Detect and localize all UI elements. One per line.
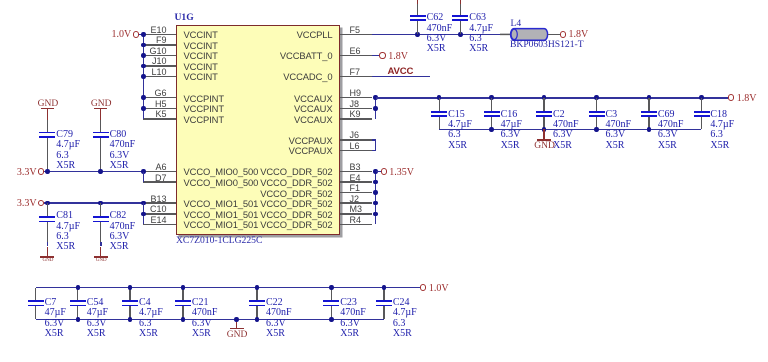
junction C4 bottom xyxy=(128,317,133,322)
junction C54 bottom xyxy=(76,317,81,322)
pin number R4 xyxy=(350,216,362,225)
pin name VCCINT xyxy=(184,72,218,81)
junction C23 bottom xyxy=(329,317,334,322)
junction C63 xyxy=(458,32,463,37)
junction C69 bottom xyxy=(647,127,652,132)
net label 1.35V xyxy=(389,168,414,178)
ground GND (top) xyxy=(91,100,112,110)
junction B13 xyxy=(141,201,146,206)
pin F5 (VCCPLL) right stub xyxy=(340,34,372,36)
junction C22 top xyxy=(255,285,260,290)
pin name VCCPAUX xyxy=(289,146,333,155)
net 1.8V terminal (VCCAUX) xyxy=(728,94,735,101)
pin name VCCO_DDR_502 xyxy=(260,220,332,229)
pin number H5 xyxy=(155,100,167,109)
pin R4 (VCCO_DDR_502) right stub xyxy=(340,224,372,226)
junction C16 top xyxy=(489,95,494,100)
junction C69 top xyxy=(647,95,652,100)
wire cap to gnd xyxy=(47,242,49,247)
pin G10 (VCCINT) left stub xyxy=(143,55,176,57)
net label AVCC xyxy=(388,67,414,77)
wire F5 to L4 xyxy=(372,34,510,36)
net 1.0V terminal (bottom) xyxy=(420,284,426,290)
ground GND xyxy=(40,256,54,258)
ground GND (VCCAUX rail) xyxy=(537,139,551,141)
junction row 6 xyxy=(141,95,146,100)
pin number J8 xyxy=(350,100,360,109)
junction row 1 xyxy=(141,43,146,48)
pin name VCCO_MIO1_501 xyxy=(184,220,259,229)
capacitor C4 xyxy=(129,288,130,301)
capacitor C23 xyxy=(331,288,332,301)
pin number B13 xyxy=(150,195,166,204)
net 1.35V terminal xyxy=(381,168,387,174)
ground GND (bottom rail) xyxy=(230,328,244,330)
capacitor C16 xyxy=(491,98,492,111)
junction ground xyxy=(234,317,239,322)
pin name VCCO_DDR_502 xyxy=(260,178,332,187)
wire 3.3V to B13 xyxy=(44,202,144,204)
wire B3 to 1.35V xyxy=(376,171,381,173)
pin J2 (VCCO_DDR_502) right stub xyxy=(340,202,372,204)
junction C24 top xyxy=(382,285,387,290)
capacitor C82 xyxy=(100,203,101,216)
wire L4 to 1.8V xyxy=(548,34,560,36)
pin number J2 xyxy=(350,195,360,204)
pin E14 (VCCO_MIO1_501) left stub xyxy=(143,224,176,226)
pin D7 (VCCO_MIO0_500) left stub xyxy=(143,181,176,183)
pin J8 (VCCAUX) right stub xyxy=(340,108,372,110)
capacitor C69 xyxy=(648,98,649,111)
ground stub (bottom rail) xyxy=(236,320,237,328)
pin name VCCINT xyxy=(184,51,218,60)
pin F7 (VCCADC_0) right stub xyxy=(340,76,372,78)
junction DDR row 14 xyxy=(373,180,378,185)
junction C16 bottom xyxy=(489,127,494,132)
pin name VCCO_MIO0_500 xyxy=(184,167,259,176)
junction C23 top xyxy=(329,285,334,290)
junction row 0 xyxy=(141,32,146,37)
wire B13 to E14 xyxy=(143,203,145,224)
pin K5 (VCCPINT) left stub xyxy=(143,118,176,120)
pin name VCCAUX xyxy=(294,94,332,103)
junction C3 bottom xyxy=(594,127,599,132)
pin number M3 xyxy=(350,205,363,214)
pin number D7 xyxy=(155,174,167,183)
junction C62 xyxy=(415,32,420,37)
pin number F5 xyxy=(350,26,361,35)
junction row 7 xyxy=(141,106,146,111)
op-amp-style IC body U1G xyxy=(176,25,340,235)
pin number J6 xyxy=(350,131,360,140)
pin number F7 xyxy=(350,68,361,77)
net 1.0V terminal xyxy=(133,31,140,38)
junction C4 top xyxy=(128,285,133,290)
junction H9 xyxy=(373,95,378,100)
ground stub xyxy=(47,247,48,256)
junction C18 top xyxy=(699,95,704,100)
junction DDR row 16 xyxy=(373,201,378,206)
pin number E6 xyxy=(350,47,361,56)
wire VCCAUX rail to 1.8V xyxy=(376,97,728,99)
pin number H9 xyxy=(350,89,362,98)
pin name VCCAUX xyxy=(294,115,332,124)
pin name VCCBATT_0 xyxy=(280,51,333,60)
junction A6 xyxy=(141,169,146,174)
pin name VCCINT xyxy=(184,30,218,39)
pin L10 (VCCINT) left stub xyxy=(143,76,176,78)
wire cap to gnd xyxy=(100,242,102,247)
capacitor C18 xyxy=(701,98,702,111)
ground stub (VCCAUX rail) xyxy=(543,129,544,139)
pin number F1 xyxy=(350,184,361,193)
pin number F9 xyxy=(156,36,167,45)
junction C21 top xyxy=(181,285,186,290)
pin A6 (VCCO_MIO0_500) left stub xyxy=(143,171,176,173)
wire bottom rail top (1.0V) xyxy=(36,287,420,289)
pin number C10 xyxy=(150,205,167,214)
pin name VCCO_MIO0_500 xyxy=(184,178,259,187)
capacitor C15 xyxy=(439,98,440,111)
junction row 2 xyxy=(141,53,146,58)
net label 3.3V (upper) xyxy=(17,168,37,178)
capacitor C2 xyxy=(543,98,544,111)
pin E4 (VCCO_DDR_502) right stub xyxy=(340,181,372,183)
pin name VCCO_DDR_502 xyxy=(260,210,332,219)
pin name VCCADC_0 xyxy=(283,72,332,81)
pin B3 (VCCO_DDR_502) right stub xyxy=(340,171,372,173)
net label 1.0V (bottom) xyxy=(429,284,449,294)
junction C15 top xyxy=(437,95,442,100)
pin name VCCO_MIO1_501 xyxy=(184,210,259,219)
net 1.8V terminal (after L4) xyxy=(560,31,567,38)
pin J6 (VCCPAUX) right stub xyxy=(340,139,372,141)
pin K9 (VCCAUX) right stub xyxy=(340,118,372,120)
part number XC7Z010-1CLG225C xyxy=(176,236,262,246)
wire VCCAUX bus xyxy=(375,98,377,119)
inductor L4 part number xyxy=(510,40,584,50)
pin number K9 xyxy=(350,110,361,119)
wire terminal to bus xyxy=(139,34,144,36)
ground stub xyxy=(100,247,101,256)
junction DDR row 17 xyxy=(373,212,378,217)
inductor L4 ferrite bead body xyxy=(500,27,550,43)
ground GND xyxy=(94,256,108,258)
junction row 4 xyxy=(141,74,146,79)
pin E10 (VCCINT) left stub xyxy=(143,34,176,36)
pin number G10 xyxy=(149,47,166,56)
capacitor C79 xyxy=(47,120,48,132)
junction C22 bottom xyxy=(255,317,260,322)
pin name VCCPINT xyxy=(184,115,224,124)
pin H5 (VCCPINT) left stub xyxy=(143,108,176,110)
capacitor C21 xyxy=(182,288,183,301)
junction C54 top xyxy=(76,285,81,290)
pin number G6 xyxy=(154,89,166,98)
junction C81 xyxy=(45,201,50,206)
pin name VCCPAUX xyxy=(289,136,333,145)
wire VCCO_DDR bus xyxy=(375,172,377,225)
wire bottom rail bottom xyxy=(36,319,384,321)
pin name VCCINT xyxy=(184,62,218,71)
capacitor C62 xyxy=(417,4,419,15)
pin E6 (VCCBATT_0) right stub xyxy=(340,55,372,57)
pin number E4 xyxy=(350,174,361,183)
junction C82 xyxy=(98,201,103,206)
pin name VCCPINT xyxy=(184,104,224,113)
net label 3.3V (lower) xyxy=(17,199,37,209)
pin number K5 xyxy=(155,110,166,119)
pin name VCCO_MIO1_501 xyxy=(184,199,259,208)
pin number J10 xyxy=(152,57,167,66)
pin name VCCO_DDR_502 xyxy=(260,199,332,208)
ground GND (top) xyxy=(38,100,59,110)
junction C2 top xyxy=(542,95,547,100)
net 3.3V terminal (upper) xyxy=(38,168,44,174)
junction C79 xyxy=(45,169,50,174)
pin name VCCPINT xyxy=(184,94,224,103)
pin L6 (VCCPAUX) right stub xyxy=(340,150,372,152)
net label 1.8V (after L4) xyxy=(569,30,589,40)
pin name VCCAUX xyxy=(294,104,332,113)
junction DDR row 13 xyxy=(373,169,378,174)
pin number B3 xyxy=(350,163,361,172)
pin name VCCO_DDR_502 xyxy=(260,167,332,176)
wire VCCPAUX tie xyxy=(375,140,377,151)
pin H9 (VCCAUX) right stub xyxy=(340,97,372,99)
junction C21 bottom xyxy=(181,317,186,322)
junction J8 xyxy=(373,106,378,111)
pin name VCCINT xyxy=(184,41,218,50)
pin number L10 xyxy=(151,68,166,77)
wire E6 to terminal xyxy=(372,55,380,57)
pin name VCCO_DDR_502 xyxy=(260,189,332,198)
net 1.8V terminal (E6) xyxy=(379,52,385,58)
pin number E10 xyxy=(150,26,166,35)
pin number E14 xyxy=(150,216,166,225)
net label 1.8V (VCCAUX) xyxy=(737,94,757,104)
pin F9 (VCCINT) left stub xyxy=(143,44,176,46)
inductor L4 designator xyxy=(511,19,522,29)
capacitor C54 xyxy=(77,288,78,301)
pin B13 (VCCO_MIO1_501) left stub xyxy=(143,202,176,204)
pin name VCCPLL xyxy=(297,30,333,39)
net label 1.0V xyxy=(111,30,131,40)
designator U1G xyxy=(175,13,194,23)
junction C80 xyxy=(98,169,103,174)
net label 1.8V (E6) xyxy=(388,52,408,62)
wire left VCCINT bus xyxy=(143,34,145,118)
pin number A6 xyxy=(155,163,166,172)
pin G6 (VCCPINT) left stub xyxy=(143,97,176,99)
junction C3 top xyxy=(594,95,599,100)
wire 3.3V to A6 xyxy=(44,171,144,173)
capacitor C22 xyxy=(256,288,257,301)
pin C10 (VCCO_MIO1_501) left stub xyxy=(143,213,176,215)
capacitor C81 xyxy=(47,203,48,216)
capacitor C7 xyxy=(35,288,36,301)
pin M3 (VCCO_DDR_502) right stub xyxy=(340,213,372,215)
junction DDR row 15 xyxy=(373,190,378,195)
junction C10 xyxy=(141,212,146,217)
wire VCCAUX cap bottom rail xyxy=(439,129,701,131)
pin number L6 xyxy=(350,142,360,151)
capacitor C3 xyxy=(596,98,597,111)
net 3.3V terminal (lower) xyxy=(38,200,44,206)
capacitor C63 xyxy=(460,4,462,15)
wire A6 to D7 xyxy=(143,172,145,183)
pin F1 (VCCO_DDR_502) right stub xyxy=(340,192,372,194)
junction row 3 xyxy=(141,64,146,69)
wire F7 AVCC xyxy=(372,76,430,78)
pin J10 (VCCINT) left stub xyxy=(143,65,176,67)
junction C2 bottom xyxy=(542,127,547,132)
capacitor C24 xyxy=(383,288,384,301)
capacitor C80 xyxy=(100,120,101,132)
